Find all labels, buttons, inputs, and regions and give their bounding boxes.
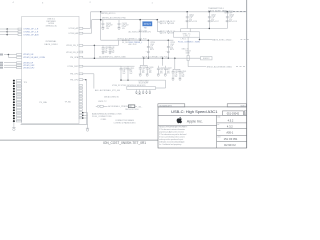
svg-text:C4114: C4114 [167, 67, 172, 69]
wire cluster B2 feed [162, 58, 164, 66]
svg-text:/_PD_1: /_PD_1 [180, 39, 187, 41]
U1 left pin dot col4 [13, 88, 15, 90]
svg-text:C4112: C4112 [105, 47, 110, 49]
ferrite bead FL1 [96, 105, 98, 107]
U1 left pin box col15 [16, 118, 21, 120]
wire long SS net [83, 57, 201, 59]
svg-text:339S00xx A: 339S00xx A [45, 25, 57, 28]
svg-text:SSRX2: SSRX2 [203, 58, 210, 60]
svg-text:NL_340: NL_340 [122, 42, 128, 44]
title block hline row4 [217, 141, 247, 143]
svg-text:CP134: CP134 [150, 42, 155, 44]
U1 left pin dot col14 [13, 115, 15, 117]
wire through cluster C [173, 68, 180, 70]
U2 bottom stub 1 [135, 90, 137, 92]
wire RFI stub top [157, 21, 160, 23]
U1 right pin box br3 [79, 117, 82, 119]
capacitor CP118 [227, 11, 229, 13]
svg-text:CP133: CP133 [170, 42, 175, 44]
svg-text:Apple Inc.: Apple Inc. [187, 119, 203, 123]
U1 right pin box col8 [79, 103, 82, 105]
svg-text:1uF: 1uF [105, 50, 108, 52]
junction dot selected net at bus [139, 39, 141, 41]
junction dot rail2 at selected net [139, 19, 141, 21]
svg-text:C4F: C4F [160, 69, 163, 71]
selected net blue label box [143, 22, 152, 26]
wire left row1 [0, 28, 18, 30]
U1 right pin box r7 [79, 73, 83, 75]
U1 left pin dot col15 [13, 117, 15, 119]
U1 right pin dot br2 [82, 115, 84, 117]
U1 left pin box col4 [16, 88, 21, 90]
U1 right pin box r1 [79, 27, 83, 29]
title block hline row2 [217, 128, 247, 130]
svg-text:PP3V3: PP3V3 [144, 24, 152, 26]
U1 left pin box col6 [16, 93, 21, 95]
wire UTDM1_UN [4, 54, 17, 56]
svg-text:XW01 TC: XW01 TC [98, 101, 107, 103]
U1 left pin dot col1 [13, 80, 15, 82]
wire mid bus [101, 39, 174, 41]
junction dot left row2 [6, 31, 8, 33]
wire stub bottom pin 2 [83, 114, 88, 116]
U1 right pin box r6 [79, 65, 83, 67]
junction dot GND_TC right [199, 39, 201, 41]
ground GND1 [12, 127, 15, 129]
junction dot pin3 [94, 45, 96, 47]
svg-text:SIZE D: SIZE D [240, 105, 246, 107]
wire caps bottom rail [181, 28, 228, 30]
svg-text:RESERVED: RESERVED [225, 11, 235, 13]
svg-text:C4120: C4120 [175, 71, 180, 73]
wire UTDM1_UP [4, 62, 17, 64]
wire caps rail to GND_TC pin1 [180, 29, 182, 32]
wire stub bottom pin 1 [83, 112, 88, 114]
U1 left pin box col10 [16, 104, 21, 106]
U1 right pin box col1 [79, 84, 82, 86]
U1 right pin box br1 [79, 112, 82, 114]
resistor cluster RFI top [160, 20, 162, 22]
svg-text:1uF: 1uF [167, 71, 170, 73]
wire bottom long net [21, 123, 88, 125]
wire selected net vertical [139, 20, 141, 41]
wire RFI bracket vertical [156, 20, 158, 32]
wire U2 output right [156, 87, 166, 89]
ground GND2 [86, 127, 89, 129]
svg-text:TP0: TP0 [24, 82, 27, 84]
offpage arrow stub 4 [0, 67, 3, 68]
wire right net segment [200, 39, 213, 41]
svg-text:PM_UP1: PM_UP1 [70, 74, 79, 76]
wire top rail1 [91, 11, 247, 13]
offpage arrow stub A [0, 54, 3, 55]
title block outer box [158, 107, 247, 148]
wire pin6 row [83, 65, 121, 67]
component dark box [128, 105, 134, 108]
svg-text:MNTEN_ACCESS3W_PIN0: MNTEN_ACCESS3W_PIN0 [102, 17, 126, 20]
svg-text:FACE_DDR4: FACE_DDR4 [45, 43, 59, 46]
wire UTDM1_UN2 [4, 64, 17, 66]
wire UTDM1_UP2 [4, 67, 17, 69]
svg-text:UTDM1_DP_AUX: UTDM1_DP_AUX [24, 33, 40, 36]
U1 right pin box r8 [79, 79, 83, 81]
svg-text:USB-C: High Speed A3C1: USB-C: High Speed A3C1 [171, 109, 218, 114]
capacitor cluster B2 [157, 66, 159, 68]
svg-text:1uF: 1uF [175, 74, 178, 76]
title block hline row1 [217, 122, 247, 124]
ESD array U2 box [127, 87, 156, 90]
svg-text:C4F: C4F [175, 73, 178, 75]
U1 left pin box col13 [16, 112, 21, 114]
svg-text:C4F: C4F [142, 69, 145, 71]
svg-text:C14F: C14F [211, 16, 215, 18]
svg-text:PM_UPA: PM_UPA [70, 56, 79, 59]
svg-text:CP124: CP124 [189, 14, 194, 16]
wire U1 pin1 to rail1 [83, 27, 91, 29]
wire dark box out [135, 105, 137, 107]
svg-text:0_PD_1: 0_PD_1 [183, 36, 190, 38]
U1 left pin box tri1 [17, 62, 22, 64]
U1 left pin box col14 [16, 115, 21, 117]
svg-text:TP_8A: TP_8A [65, 101, 72, 104]
svg-text:rev: rev [217, 124, 219, 126]
U1 left pin box tri2 [17, 64, 22, 66]
wire left row2 [0, 31, 18, 33]
U1 right pin dot br3 [82, 117, 84, 119]
U1 left pin box col1 [16, 80, 21, 82]
sheet bottom border [0, 139, 158, 141]
svg-text:1uF: 1uF [112, 50, 115, 52]
title block vline column divider [216, 115, 218, 148]
capacitor cluster D [120, 66, 122, 68]
svg-text:UTDM_DN_N: UTDM_DN_N [66, 52, 79, 54]
U1 right pin box col4 [79, 93, 82, 95]
capacitor C139 branch [118, 20, 120, 24]
svg-text:1uF: 1uF [150, 46, 153, 48]
wire GND_TC right stub [199, 37, 201, 39]
U1 right pin box col7 [79, 101, 82, 103]
wire cluster B2 down to ESD [165, 80, 167, 88]
U1 left pin dot col11 [13, 107, 15, 109]
svg-text:C4126: C4126 [149, 67, 154, 69]
capacitor CP124 [186, 11, 188, 13]
U1 right pin box col3 [79, 90, 82, 92]
svg-text:TW: TW [144, 27, 147, 29]
Apple logo [177, 117, 182, 123]
U1 left pin box col3 [16, 85, 21, 87]
svg-text:C4F: C4F [123, 70, 126, 72]
U1 left pin box col12 [16, 109, 21, 111]
U1 left pin box col7 [16, 96, 21, 98]
wire branch down [7, 55, 9, 58]
svg-text:1uF: 1uF [123, 71, 126, 73]
wire SS branch down [174, 58, 176, 69]
svg-text:C14F: C14F [150, 44, 154, 46]
junction dot SS 1 [94, 57, 96, 59]
svg-text:INTERNAL: INTERNAL [46, 40, 58, 43]
capacitor C140 branch [102, 20, 104, 24]
svg-text:COVER0 D PADMOUNT0: COVER0 D PADMOUNT0 [114, 122, 136, 125]
svg-text:CP118: CP118 [229, 14, 234, 16]
svg-text:0TDM_DP 0TDM_DM 0DN3 4 30DM UP: 0TDM_DP 0TDM_DM 0DN3 4 30DM UP0 [112, 85, 145, 87]
U1 left pin box row1 [18, 28, 22, 30]
wire cluster D bottom tie [121, 79, 166, 81]
wire UTDM1_UN_AUX [8, 56, 16, 58]
svg-text:1uF: 1uF [130, 71, 133, 73]
svg-text:UTDM_AN: UTDM_AN [69, 32, 79, 35]
svg-text:PS_08A: PS_08A [39, 101, 47, 104]
U1 left pin dot col6 [13, 93, 15, 95]
U1 right pin box col5 [79, 95, 82, 97]
svg-text:1uF: 1uF [189, 18, 192, 20]
U1 left pin box row2 [18, 31, 22, 33]
svg-text:UTDM_DN_P: UTDM_DN_P [66, 45, 79, 47]
wire through cluster D [121, 65, 135, 67]
svg-text:C4113: C4113 [160, 67, 165, 69]
svg-text:UTDM_AP: UTDM_AP [69, 27, 79, 30]
svg-text:+: + [185, 20, 186, 22]
U1 right pin box r5 [79, 56, 83, 58]
offpage arrow stub 2 [0, 62, 3, 63]
U1 left pin box col9 [16, 101, 21, 103]
junction dot caps rail [209, 28, 210, 29]
U1 left pin box tri3 [17, 67, 22, 69]
U1 left pin dot col9 [13, 101, 15, 103]
svg-text:C4119: C4119 [130, 68, 135, 70]
svg-text:PM_UP2: PM_UP2 [70, 79, 79, 81]
svg-text:A05-1: A05-1 [226, 131, 233, 135]
mute box GND_TC [173, 32, 199, 37]
capacitor cluster Dmid feed [143, 58, 144, 59]
junction dot SS 2 [174, 57, 176, 59]
junction dot left row1 [6, 28, 8, 30]
U1 left pin box col16 [16, 120, 21, 122]
title block hline under title [158, 114, 247, 116]
U1 left pin box row3 [18, 34, 22, 36]
wire cluster A up to bus [117, 40, 119, 45]
U2 bottom stub 3 [142, 90, 144, 92]
svg-text:UTDM_DN2: UTDM_DN2 [67, 66, 79, 68]
wire pin7 row [83, 73, 94, 75]
title block hline row3 [217, 134, 247, 136]
U2 bottom stub 4 [146, 90, 148, 92]
svg-text:D2 NF K2: D2 NF K2 [224, 143, 236, 147]
wire stub bottom pin 3 [83, 117, 88, 119]
U1 right pin box r4 [79, 51, 83, 53]
svg-text:4.3.2: 4.3.2 [227, 125, 233, 129]
U1 right pin dot br1 [82, 112, 84, 114]
vertical tie of left rows [6, 29, 8, 35]
svg-text:scale: scale [217, 130, 220, 132]
svg-text:ACCESSPOOL_UWOX_SSB: ACCESSPOOL_UWOX_SSB [99, 55, 126, 58]
U1 left pin dot col10 [13, 104, 15, 106]
U1 right pin box col2 [79, 87, 82, 89]
offpage arrow stub 3 [0, 65, 3, 66]
title block tab left [158, 104, 185, 107]
U2 bottom stub 5 [149, 90, 151, 92]
svg-text:UTDM1_DP_2_R: UTDM1_DP_2_R [24, 32, 39, 34]
U1 left pin dot col8 [13, 99, 15, 101]
svg-text:PLUG_CONNECTOR0: PLUG_CONNECTOR0 [92, 116, 111, 118]
svg-text:1uF: 1uF [142, 70, 145, 72]
svg-text:C4118: C4118 [123, 68, 128, 70]
svg-text:CONN0: CONN0 [101, 119, 107, 121]
svg-text:+: + [146, 51, 147, 53]
svg-text:ACCE_ACCESSALL_UW_PU0_L: ACCE_ACCESSALL_UW_PU0_L [142, 56, 169, 59]
wire RFI stub bottom [157, 31, 160, 33]
svg-text:0M0 ACCESS0 30: 0M0 ACCESS0 30 [104, 96, 119, 99]
svg-text:A40 - ACCESSALL_4TR_440: A40 - ACCESSALL_4TR_440 [95, 89, 120, 92]
svg-text:C4125: C4125 [142, 67, 147, 69]
svg-text:CP117: CP117 [211, 14, 216, 16]
wire pin8 row [83, 79, 86, 81]
junction dot left row3 [6, 34, 8, 36]
U1 left pin box pair2 [17, 57, 22, 59]
capacitor CP134 branch [148, 39, 150, 41]
wire left row3 [0, 34, 18, 36]
IC U1 retimer box [22, 16, 79, 123]
svg-text:1uF: 1uF [149, 70, 152, 72]
svg-text:C14F: C14F [229, 16, 233, 18]
wire caps rail to GND_TC pin2 [189, 29, 191, 32]
wire U1 pin2 to rail2 [83, 32, 92, 34]
title block tab right [227, 104, 246, 107]
U1 left pin dot col2 [13, 82, 15, 84]
U1 right pin box col6 [79, 98, 82, 100]
capacitor cluster Dmid [139, 65, 141, 67]
svg-text:MNTEN_ACCU 0: MNTEN_ACCU 0 [101, 12, 115, 15]
svg-text:1uF: 1uF [182, 74, 185, 76]
wire branch 94.4 down [93, 45, 95, 58]
wire pin8 down [85, 80, 87, 125]
U1 right pin box r2 [79, 32, 83, 34]
svg-text:C14F: C14F [170, 44, 174, 46]
svg-text:NO-STUFF: NO-STUFF [139, 82, 149, 84]
U1 right pin box br2 [79, 115, 82, 117]
wire pin3 row [83, 44, 101, 46]
svg-text:4.5.2: 4.5.2 [228, 118, 234, 122]
svg-text:A4ALBURN04 ACCESSALL0 UW0: A4ALBURN04 ACCESSALL0 UW0 [92, 112, 121, 115]
U1 right pin box col10 [79, 109, 82, 111]
wire U1 bottom-left to ground [13, 122, 15, 128]
svg-text:C14F: C14F [189, 16, 193, 18]
svg-text:051-03042: 051-03042 [227, 111, 240, 115]
title block hline under logo [158, 124, 217, 126]
svg-text:NO STUFF: NO STUFF [225, 13, 233, 15]
wire rail2 [92, 19, 158, 21]
svg-text:1uF: 1uF [160, 71, 163, 73]
svg-text:151 OF 051: 151 OF 051 [224, 137, 238, 141]
svg-text:BRICK_ACCESS3W_GND0: BRICK_ACCESS3W_GND0 [207, 65, 233, 68]
wire pin7 down [93, 74, 95, 89]
cell REV box [244, 111, 247, 115]
svg-text:ION_COST_0N0SH-TET_0R1: ION_COST_0N0SH-TET_0R1 [103, 141, 146, 145]
sheet right border [246, 0, 248, 148]
net flag SSRX [201, 57, 213, 60]
capacitor CP117 [209, 11, 211, 13]
svg-text:UTDM1_UN_AUX_CONN: UTDM1_UN_AUX_CONN [23, 56, 45, 59]
svg-text:U44: U44 [137, 94, 140, 96]
U1 left pin box col2 [16, 82, 21, 84]
U1 left pin box col8 [16, 99, 21, 101]
svg-text:+: + [207, 20, 208, 22]
svg-text:+: + [166, 51, 167, 53]
svg-text:C4145: C4145 [182, 71, 187, 73]
cell 051 part number box [223, 111, 244, 115]
svg-text:1uF: 1uF [170, 46, 173, 48]
wire R4113 to net name [188, 66, 206, 68]
svg-text:RECH-OST 0D0: RECH-OST 0D0 [125, 109, 138, 111]
U2 bottom stub 2 [139, 90, 141, 92]
wire through cluster A [101, 44, 119, 46]
U1 left pin dot col12 [13, 109, 15, 111]
U1 left pin dot col5 [13, 90, 15, 92]
capacitor CP133 branch [168, 39, 170, 41]
wire U1 bottom pins to vertical [87, 113, 89, 129]
svg-text:A0_TDM1_UP0 0TDM_UP1: A0_TDM1_UP0 0TDM_UP1 [129, 31, 151, 34]
svg-text:A30 - 0.03: A30 - 0.03 [129, 43, 137, 46]
svg-text:UTDM1_DP_1_R: UTDM1_DP_1_R [24, 29, 39, 31]
svg-text:UTDM1_UP2: UTDM1_UP2 [23, 67, 34, 69]
junction dot rail2 right end [157, 19, 159, 21]
svg-text:C4F: C4F [105, 49, 108, 51]
capacitor cluster C [172, 69, 174, 71]
svg-text:+: + [225, 20, 226, 22]
U1 left pin box col11 [16, 107, 21, 109]
svg-text:PLUG_CONNECT_TDM0: PLUG_CONNECT_TDM0 [178, 42, 200, 44]
svg-text:WAIT3_EXEC_GND0: WAIT3_EXEC_GND0 [212, 38, 232, 41]
svg-text:edcb: edcb [217, 116, 220, 118]
U1 left pin dot col13 [13, 112, 15, 114]
svg-text:UTDM1_UN: UTDM1_UN [23, 54, 34, 56]
resistor R4113 body [187, 56, 189, 61]
svg-text:C4F: C4F [112, 47, 115, 49]
U1 left pin dot col7 [13, 96, 15, 98]
U1 left pin dot col3 [13, 85, 15, 87]
U1 left pin dot col16 [13, 120, 15, 122]
capacitor C141 on selected net [139, 29, 142, 31]
svg-text:1uF: 1uF [211, 18, 214, 20]
svg-text:1uF: 1uF [229, 18, 232, 20]
U1 left pin box pair1 [17, 54, 22, 56]
resistor cluster RFI bottom [160, 30, 162, 32]
junction dot UTDM1_UN [8, 54, 10, 56]
U1 left pin box col5 [16, 91, 21, 93]
capacitor cluster A [102, 45, 104, 47]
wire bus riser [100, 12, 102, 40]
U1 right pin box r3 [79, 45, 83, 47]
U1 right pin box col9 [79, 106, 82, 108]
